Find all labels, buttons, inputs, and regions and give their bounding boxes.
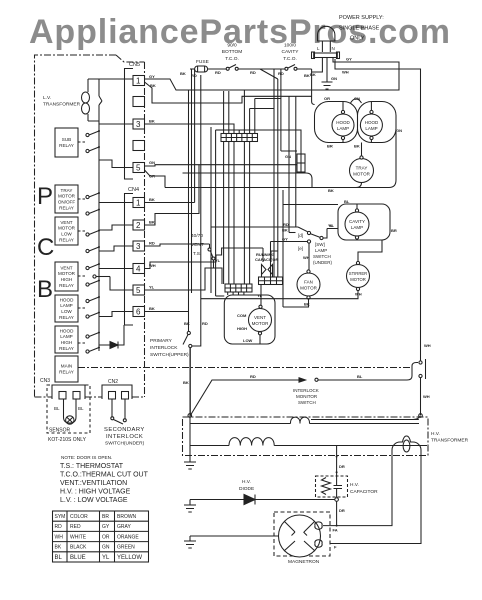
CN4 pin 3 [133, 241, 145, 251]
svg-text:SENSOR: SENSOR [49, 428, 71, 434]
svg-text:WH: WH [55, 534, 64, 540]
wire jog g [216, 129, 231, 131]
svg-text:SINGLE PHASE: SINGLE PHASE [339, 26, 380, 32]
wire DR lower [336, 501, 338, 525]
svg-text:BK: BK [55, 545, 62, 551]
svg-text:BK: BK [149, 197, 155, 202]
wire lv bottom [88, 121, 133, 124]
svg-text:MAIN: MAIN [61, 364, 72, 369]
CN4 pin 6 [133, 307, 145, 317]
ground HV left [184, 446, 196, 470]
vent motor loop [224, 295, 275, 344]
wire jog c [262, 248, 264, 257]
svg-text:CAVITY: CAVITY [282, 49, 300, 55]
svg-text:YL: YL [329, 223, 335, 228]
cavity TCO switch [285, 67, 288, 70]
svg-text:BL: BL [357, 374, 363, 379]
svg-text:COM: COM [237, 313, 247, 318]
main relay [55, 356, 78, 382]
sensor dashed box [47, 385, 90, 433]
svg-text:LAMP: LAMP [365, 126, 377, 131]
svg-text:TRAY: TRAY [356, 166, 368, 171]
svg-text:BL: BL [78, 406, 84, 411]
svg-text:SWITCH(UNDER): SWITCH(UNDER) [105, 441, 145, 447]
svg-text:MOTOR: MOTOR [58, 271, 76, 276]
svg-text:BLUE: BLUE [70, 555, 86, 561]
svg-text:COLOR: COLOR [70, 514, 88, 520]
HV capacitor C1 [316, 476, 348, 497]
svg-text:CN3: CN3 [40, 378, 50, 384]
svg-text:HIGH: HIGH [61, 277, 72, 282]
vent motor low relay [55, 217, 78, 245]
wire jog h [216, 295, 225, 297]
magnetron MG1 [279, 515, 321, 557]
svg-text:5: 5 [136, 164, 141, 173]
svg-text:90/0: 90/0 [227, 43, 237, 49]
wire to CN4 pin5 [110, 277, 133, 291]
svg-text:5: 5 [136, 286, 141, 295]
svg-text:CN2: CN2 [108, 379, 118, 385]
svg-text:L.V. : LOW VOLTAGE: L.V. : LOW VOLTAGE [60, 497, 128, 504]
svg-text:HIGH: HIGH [61, 340, 72, 345]
svg-text:FA: FA [333, 528, 338, 533]
vent motor M4 [260, 285, 261, 345]
wire CN5 pin1 BK [145, 82, 312, 103]
wire to CN4 pin4 [99, 268, 133, 270]
svg-text:BK: BK [282, 228, 288, 233]
svg-text:INTERLOCK: INTERLOCK [150, 345, 178, 351]
svg-text:BROWN: BROWN [117, 514, 137, 520]
svg-text:NOTE: DOOR IS OPEN.: NOTE: DOOR IS OPEN. [61, 455, 112, 460]
wire vertical v22 [280, 70, 282, 152]
svg-text:GY: GY [149, 74, 155, 79]
svg-text:RELAY: RELAY [59, 237, 74, 242]
wire lamp sw GY [271, 242, 308, 278]
wire lamp sw RD [211, 226, 298, 228]
svg-text:FAN: FAN [304, 280, 313, 285]
svg-text:MAGNETRON: MAGNETRON [288, 559, 320, 565]
wire vertical v5 [210, 127, 212, 293]
svg-text:WH: WH [424, 343, 431, 348]
wire CN5 pin3 [145, 124, 235, 134]
svg-text:CAPACITOR: CAPACITOR [350, 489, 378, 495]
svg-text:OR: OR [324, 96, 330, 101]
wire jog d [271, 251, 278, 257]
svg-text:GN: GN [331, 76, 337, 81]
svg-text:T.C.O.: T.C.O. [283, 56, 297, 62]
svg-text:VENT: VENT [60, 220, 72, 225]
svg-text:1: 1 [136, 77, 141, 86]
svg-text:GRAY: GRAY [117, 524, 131, 530]
connector bar CN-C [259, 277, 283, 285]
wire BK interlock [188, 90, 190, 332]
wire bar1 down1 [223, 142, 225, 285]
svg-text:BR: BR [327, 144, 333, 149]
svg-text:TRANSFORMER: TRANSFORMER [43, 102, 81, 108]
svg-text:TRAY: TRAY [61, 188, 73, 193]
svg-text:PRIMARY: PRIMARY [150, 338, 173, 344]
svg-text:6: 6 [136, 308, 141, 317]
svg-text:HOOD: HOOD [365, 120, 379, 125]
CN5 pin nc [133, 97, 145, 107]
wire BK plug [312, 58, 323, 102]
svg-text:YL: YL [257, 293, 263, 298]
connector bar CN-A [221, 134, 258, 142]
hood lamp bump [351, 99, 362, 103]
wire CN5 pin5 GN [145, 165, 298, 166]
svg-text:BK: BK [180, 71, 186, 76]
svg-text:ON/OFF: ON/OFF [58, 200, 76, 205]
vent motor high relay [55, 262, 78, 291]
svg-text:YELLOW: YELLOW [117, 555, 142, 561]
wire bar2 to loop a [227, 292, 229, 295]
wire jog e [281, 150, 297, 152]
wire bar1 down3 [233, 142, 235, 285]
svg-text:SECONDARY: SECONDARY [104, 427, 145, 433]
svg-text:GN: GN [396, 128, 402, 133]
svg-text:B: B [37, 276, 53, 303]
secondary interlock switch [112, 399, 125, 419]
vent high relay contacts [78, 275, 85, 277]
wire vertical v21 [277, 79, 279, 277]
svg-text:40/70: 40/70 [191, 233, 203, 239]
svg-text:BK: BK [149, 119, 155, 124]
wire jog b [255, 98, 281, 100]
HV primary coil [190, 445, 229, 447]
wire to CN4 pin3 [99, 246, 133, 251]
svg-text:FUSE: FUSE [196, 59, 209, 65]
svg-text:LAMP: LAMP [351, 225, 363, 230]
magnetron filament coils [315, 522, 322, 530]
svg-text:TRANSFORMER: TRANSFORMER [431, 438, 469, 444]
wire CN4 pin1 [145, 202, 195, 204]
monitor switch contacts [419, 361, 422, 364]
wire vertical v10 [238, 130, 240, 134]
svg-text:YL: YL [149, 285, 155, 290]
CN4 pin 2 [133, 220, 145, 230]
svg-text:YL: YL [102, 555, 110, 561]
svg-text:T.S.: T.S. [193, 251, 201, 257]
wire bar2 to loop c [238, 292, 240, 295]
svg-text:RELAY: RELAY [59, 346, 74, 351]
wire vertical v12 [243, 90, 245, 134]
svg-text:MONITOR: MONITOR [296, 394, 318, 399]
svg-text:CAPACITOR: CAPACITOR [255, 257, 279, 262]
wire CN4 pin3 [145, 244, 210, 248]
svg-text:BK: BK [183, 380, 189, 385]
svg-text:GY: GY [102, 524, 110, 530]
svg-text:WH: WH [149, 263, 156, 268]
svg-text:LOW: LOW [243, 338, 253, 343]
svg-text:OR: OR [149, 174, 155, 179]
svg-text:SYM: SYM [55, 514, 66, 520]
svg-text:1: 1 [136, 199, 141, 208]
svg-text:T.S.: THERMOSTAT: T.S.: THERMOSTAT [60, 463, 124, 470]
svg-text:MOTOR: MOTOR [58, 226, 76, 231]
running capacitor C2 [262, 265, 273, 275]
svg-text:N: N [332, 46, 335, 51]
ground GN power [326, 58, 328, 83]
svg-text:3: 3 [136, 120, 141, 129]
wire vertical v6 [215, 130, 217, 296]
CN5 pin nc [133, 141, 145, 151]
CN4 pin 4 [133, 264, 145, 274]
CN5 pin 1 [133, 76, 145, 86]
svg-text:RD: RD [55, 524, 63, 530]
svg-text:L.V.: L.V. [43, 95, 51, 101]
svg-text:VENT: VENT [191, 242, 204, 248]
svg-text:P: P [37, 183, 53, 210]
wire RD interlock [200, 75, 202, 344]
wire vertical v2 [191, 70, 193, 294]
wire tray to CN4 pin1 [99, 202, 133, 204]
svg-text:RD: RD [250, 70, 256, 75]
svg-text:3: 3 [136, 242, 141, 251]
svg-text:BK: BK [304, 73, 310, 78]
svg-text:INTERLOCK: INTERLOCK [293, 388, 319, 393]
svg-text:RELAY: RELAY [59, 315, 74, 320]
tray motor wires [165, 132, 396, 188]
ground magnetron [184, 536, 196, 548]
wire WH right bus [335, 59, 421, 361]
svg-text:MOTOR: MOTOR [252, 321, 269, 326]
relay bus [99, 79, 102, 351]
svg-text:YL: YL [215, 258, 221, 263]
svg-text:BR: BR [102, 514, 109, 520]
svg-text:RD: RD [149, 241, 155, 246]
svg-text:MOTOR: MOTOR [353, 172, 370, 177]
svg-text:MOTOR: MOTOR [300, 286, 317, 291]
wire DR upper [336, 446, 338, 477]
wire jog a [250, 108, 274, 110]
hood lamp capsule 2 [358, 102, 397, 143]
svg-text:WH: WH [342, 70, 349, 75]
plug P1 [318, 26, 335, 41]
svg-text:BL: BL [54, 406, 60, 411]
svg-text:ONLY: ONLY [350, 36, 365, 42]
right bus lower [420, 378, 422, 416]
hood lamp wires [343, 102, 371, 143]
svg-text:RD: RD [215, 70, 221, 75]
svg-text:2: 2 [136, 221, 141, 230]
wire CN4 pin4 [145, 248, 264, 269]
connector bar CN-B [225, 284, 252, 292]
wire bar1 down5 [249, 142, 251, 285]
svg-text:DR: DR [339, 464, 345, 469]
wire vertical v13 [249, 109, 251, 134]
hood lamp low relay [55, 295, 78, 322]
cavity lamp L3 [345, 212, 369, 236]
wire jog g [216, 129, 225, 131]
wire BL vertical [282, 190, 284, 285]
sub relay contacts [78, 141, 85, 143]
sub relay [55, 128, 78, 157]
svg-text:CN5: CN5 [129, 62, 140, 68]
svg-text:CN4: CN4 [128, 187, 139, 193]
HV transformer left wires [189, 348, 191, 446]
svg-text:HOOD: HOOD [60, 297, 74, 302]
svg-text:RD: RD [202, 321, 208, 326]
svg-text:[d]: [d] [298, 233, 303, 238]
svg-text:RD: RD [250, 374, 256, 379]
svg-text:MOTOR: MOTOR [350, 277, 366, 282]
svg-text:SWITCH(UPPER): SWITCH(UPPER) [150, 352, 189, 358]
wire lamp sw BK [289, 232, 296, 234]
wire CN5 pin5 OR [145, 170, 313, 188]
primary interlock switch [187, 331, 190, 334]
svg-text:BL: BL [344, 199, 350, 204]
svg-text:WH: WH [303, 255, 310, 260]
wire bar2 to loop d [243, 292, 245, 295]
svg-text:WH: WH [423, 394, 430, 399]
wire vertical v23 [288, 96, 290, 232]
svg-text:BLACK: BLACK [70, 545, 87, 551]
svg-text:GY: GY [346, 57, 352, 62]
svg-text:C: C [37, 234, 54, 261]
svg-text:INTERLOCK: INTERLOCK [106, 434, 143, 440]
filament winding [392, 436, 421, 455]
svg-text:LAMP: LAMP [315, 248, 327, 253]
svg-text:HIGH: HIGH [237, 326, 247, 331]
filament leads [323, 455, 421, 543]
svg-text:LAMP: LAMP [337, 126, 349, 131]
CN5 pin 3 [133, 119, 145, 129]
svg-text:GN: GN [149, 160, 155, 165]
wire vertical v14 [254, 99, 256, 134]
svg-text:GREEN: GREEN [117, 545, 135, 551]
magnetron anode wire [196, 535, 279, 537]
stirrer motor wires [201, 240, 382, 299]
svg-text:LAMP: LAMP [60, 303, 73, 308]
svg-text:4: 4 [136, 265, 141, 274]
hood lamp L2 [360, 114, 382, 136]
wire to CN4 pin2 [99, 225, 133, 230]
svg-text:(UNDER): (UNDER) [313, 260, 332, 265]
svg-text:BK: BK [184, 321, 190, 326]
stirrer motor M3 [347, 265, 370, 288]
svg-text:RELAY: RELAY [59, 143, 74, 148]
wire vertical v20 [273, 70, 275, 278]
wire lv top [88, 78, 133, 80]
svg-text:BK: BK [149, 220, 155, 225]
wire bar1 down2 [228, 142, 230, 285]
interlock monitor contact [299, 378, 306, 382]
wire GY top [244, 58, 399, 91]
svg-text:BR: BR [391, 228, 397, 233]
wire to CN4 pin6 [99, 312, 133, 317]
svg-text:DR: DR [339, 508, 345, 513]
svg-text:HOOD: HOOD [336, 120, 350, 125]
hood lamp high relay [55, 326, 78, 353]
vent high changeover contact [93, 275, 96, 278]
wire fan top [308, 243, 310, 270]
svg-text:LOW: LOW [61, 232, 72, 237]
lamp switch SW1 [307, 231, 310, 234]
wire vertical v3 [194, 70, 196, 203]
svg-text:BK: BK [304, 302, 310, 307]
svg-text:H.V. : HIGH VOLTAGE: H.V. : HIGH VOLTAGE [60, 489, 131, 496]
svg-text:GN: GN [354, 96, 360, 101]
CN5 pin 5 [133, 163, 145, 173]
HV diode D2 [190, 499, 335, 501]
svg-text:H.V.: H.V. [242, 479, 251, 485]
wire bar2 to loop b [232, 292, 234, 295]
svg-text:RELAY: RELAY [59, 370, 74, 375]
connector 2pin GN [297, 154, 305, 172]
wire CN4 pin6 [145, 311, 189, 313]
svg-text:GN: GN [102, 545, 110, 551]
wire TCO diagonal [260, 69, 278, 79]
L.V. transformer coil [87, 79, 89, 121]
svg-text:SWITCH: SWITCH [298, 400, 316, 405]
svg-text:LAMP: LAMP [60, 334, 73, 339]
svg-text:ORANGE: ORANGE [117, 534, 139, 540]
fan motor wires [283, 205, 338, 308]
svg-text:STIRRER: STIRRER [349, 271, 367, 276]
hood feed wire [312, 102, 315, 105]
svg-text:CAVITY: CAVITY [349, 219, 365, 224]
wire jog i [216, 130, 301, 154]
wire CN5 pin1 GY [145, 79, 400, 90]
lamp switch wires [298, 227, 327, 238]
svg-text:BK: BK [328, 188, 334, 193]
svg-text:OR: OR [102, 534, 110, 540]
svg-text:SWITCH: SWITCH [313, 254, 331, 259]
HV secondary wire [190, 423, 291, 425]
control board border [35, 55, 145, 397]
svg-text:LOW: LOW [61, 309, 72, 314]
svg-text:BL: BL [55, 555, 63, 561]
wire CN4 pin5 YL [145, 260, 223, 290]
wire vertical v7 [223, 91, 225, 134]
chassis dashed line [78, 367, 412, 369]
svg-text:VENT.:VENTILATION: VENT.:VENTILATION [60, 480, 127, 487]
svg-text:GN: GN [285, 154, 291, 159]
HV transformer box [183, 417, 429, 456]
svg-text:VENT: VENT [254, 315, 266, 320]
magnetron box [274, 512, 330, 556]
svg-text:SUB: SUB [62, 137, 71, 142]
cavity lamp wires [327, 204, 357, 240]
svg-text:[SW]: [SW] [315, 242, 325, 247]
svg-text:RD: RD [283, 222, 289, 227]
monitor wire RD [190, 348, 303, 416]
svg-text:BK: BK [149, 306, 155, 311]
svg-text:BOTTOM: BOTTOM [222, 49, 242, 55]
hood lamp L1 [332, 114, 354, 136]
CN4 pin 1 [133, 198, 145, 208]
svg-text:DIODE: DIODE [239, 486, 254, 492]
svg-text:WHITE: WHITE [70, 534, 87, 540]
bottom TCO switch [208, 68, 226, 70]
svg-text:RED: RED [70, 524, 81, 530]
wire vertical v24 [295, 96, 297, 227]
tray motor M1 [350, 159, 374, 183]
svg-text:POWER SUPPLY:: POWER SUPPLY: [339, 15, 384, 21]
svg-text:H.V.: H.V. [350, 482, 359, 488]
hood low relay contacts [78, 307, 85, 309]
svg-text:100/0: 100/0 [284, 43, 296, 49]
wire bar1 down4 [243, 142, 245, 285]
wire CN4 pin2 [145, 165, 200, 225]
tray motor relay [55, 185, 78, 213]
svg-text:GY: GY [282, 237, 288, 242]
svg-text:H.V.: H.V. [431, 431, 440, 437]
hood high relay contacts [78, 342, 85, 344]
svg-text:VENT: VENT [60, 265, 72, 270]
terminal block TB1 [314, 53, 338, 58]
svg-text:MOTOR: MOTOR [58, 194, 76, 199]
